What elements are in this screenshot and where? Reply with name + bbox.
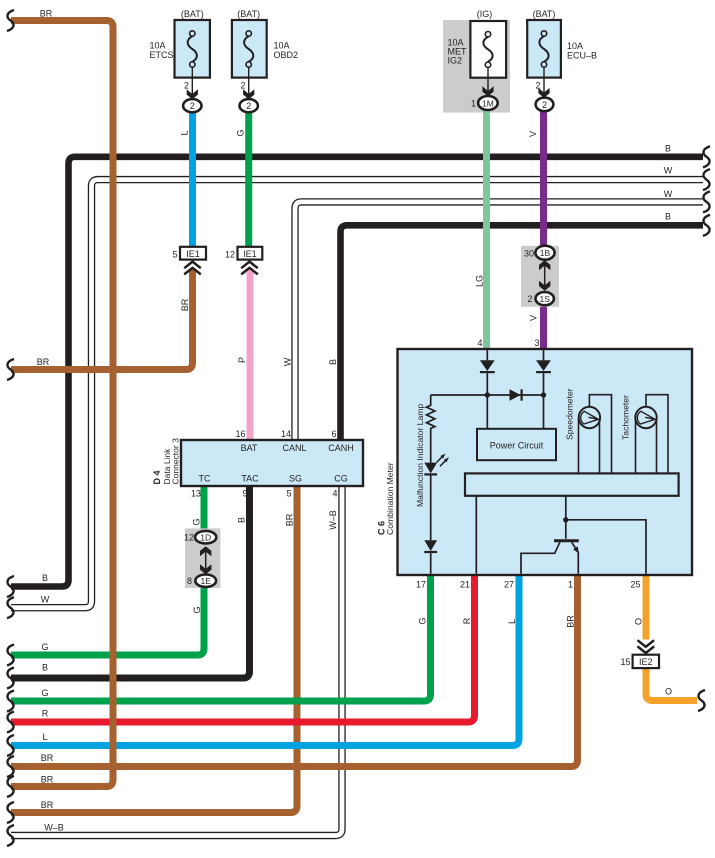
wire L from fuse ETCS to connector IE1 (blue): [189, 111, 196, 248]
svg-text:10A: 10A: [567, 41, 583, 51]
wire to power circuit right: [543, 395, 545, 429]
connector IE2 pin 15 on O wire: [620, 640, 659, 668]
wire G from D4 pin 13 TC through 1D/1E to left edge (green): [11, 486, 204, 655]
svg-text:8: 8: [187, 576, 192, 586]
svg-text:R: R: [462, 617, 472, 624]
svg-text:Combination Meter: Combination Meter: [385, 462, 395, 535]
svg-text:1D: 1D: [200, 533, 211, 543]
tachometer loop wire: [646, 395, 668, 474]
svg-text:16: 16: [235, 429, 245, 439]
LED malfunction indicator lamp: [424, 453, 449, 474]
fuse 10A ETCS: [150, 9, 210, 112]
wire BR from left edge to meter pin 1 (brown): [11, 575, 578, 767]
svg-text:2: 2: [542, 100, 547, 110]
node B right edge bottom: [703, 215, 710, 236]
wire BR from connector IE1 to left edge (brown): [11, 270, 193, 370]
wire B main bus top-right to bottom-left (black): [11, 157, 703, 587]
svg-text:SG: SG: [289, 474, 302, 484]
svg-text:3: 3: [534, 338, 539, 348]
svg-text:5: 5: [172, 249, 177, 259]
svg-text:30: 30: [524, 249, 534, 259]
svg-text:W–B: W–B: [44, 823, 64, 833]
wire LG from connector 1M to meter pin 4 (light green): [483, 110, 490, 350]
junction node right: [541, 392, 546, 397]
svg-text:(BAT): (BAT): [533, 9, 556, 19]
svg-text:W: W: [664, 189, 673, 199]
svg-text:2: 2: [527, 294, 532, 304]
svg-text:G: G: [192, 606, 202, 613]
svg-text:B: B: [665, 144, 671, 154]
fuse 10A OBD2: [232, 9, 298, 112]
svg-text:G: G: [41, 688, 48, 698]
svg-text:CANH: CANH: [328, 443, 354, 453]
connector IE1 pin 12: [225, 247, 262, 275]
svg-text:BR: BR: [41, 775, 54, 785]
svg-text:L: L: [42, 732, 47, 742]
svg-text:TC: TC: [199, 474, 211, 484]
svg-text:L: L: [180, 130, 190, 135]
node B bottom-left 2: [7, 668, 14, 689]
wire to power circuit left: [486, 395, 488, 429]
tachometer gauge: [635, 407, 656, 428]
speedometer loop wire: [589, 395, 611, 474]
svg-text:BR: BR: [41, 800, 54, 810]
svg-text:G: G: [192, 518, 202, 525]
svg-text:1S: 1S: [539, 294, 550, 304]
svg-text:27: 27: [504, 580, 514, 590]
svg-text:1E: 1E: [200, 576, 211, 586]
svg-text:12: 12: [225, 249, 235, 259]
transistor Q1: [521, 541, 579, 574]
node BR bottom-left 1: [7, 756, 14, 777]
node W right edge 1: [703, 169, 710, 190]
fuse 10A MET IG2: [448, 9, 507, 110]
svg-text:W: W: [283, 357, 293, 366]
wire MIL chain: [430, 476, 432, 541]
diode at meter pin 3: [536, 350, 551, 395]
svg-text:CG: CG: [334, 474, 348, 484]
node L bottom-left: [7, 735, 14, 756]
svg-text:1: 1: [568, 580, 573, 590]
node W bottom-left: [7, 597, 14, 618]
wire V from fuse ECU-B to meter pin 3 (violet): [540, 110, 547, 350]
svg-text:1M: 1M: [482, 98, 494, 108]
node O right edge: [698, 690, 705, 711]
gray panel behind fuse MET IG2: [443, 20, 510, 113]
svg-text:G: G: [41, 642, 48, 652]
svg-text:(BAT): (BAT): [237, 9, 260, 19]
wire internal horizontal node: [431, 394, 544, 396]
node G bottom-left 2: [7, 691, 14, 712]
svg-text:G: G: [418, 617, 428, 624]
svg-text:5: 5: [286, 489, 291, 499]
svg-text:IE2: IE2: [639, 657, 653, 667]
fuse 10A ECU-B: [527, 9, 597, 111]
wire R from left edge to meter pin 21 (red): [11, 575, 475, 722]
power circuit box U1: [477, 429, 556, 460]
svg-text:LG: LG: [475, 275, 485, 287]
svg-text:Malfunction Indicator Lamp: Malfunction Indicator Lamp: [415, 404, 425, 507]
svg-text:V: V: [529, 315, 539, 321]
svg-text:4: 4: [332, 489, 337, 499]
wire B from D4 pin 9 TAC to left edge (black): [11, 486, 250, 678]
svg-text:IE1: IE1: [186, 249, 200, 259]
svg-text:Speedometer: Speedometer: [565, 388, 575, 440]
svg-text:BR: BR: [566, 615, 576, 628]
svg-text:B: B: [42, 573, 48, 583]
svg-text:21: 21: [460, 580, 470, 590]
bus bar: [465, 473, 679, 495]
svg-text:CANL: CANL: [282, 443, 306, 453]
svg-text:4: 4: [477, 338, 482, 348]
svg-text:V: V: [528, 131, 538, 137]
svg-text:(BAT): (BAT): [181, 9, 204, 19]
wire bus to pin 21: [475, 496, 477, 574]
connector pair 1B/1S on V wire: [521, 246, 559, 307]
svg-text:Power Circuit: Power Circuit: [490, 441, 544, 451]
diode in MIL chain: [424, 540, 437, 574]
svg-text:D 4: D 4: [152, 470, 162, 484]
svg-text:Connector 3: Connector 3: [171, 438, 181, 485]
node B right edge top: [703, 146, 710, 167]
wire W bus right edge to bottom-left (white, outlined): [11, 180, 703, 608]
connector pair 1D/1E on TC wire: [184, 528, 220, 588]
svg-text:OBD2: OBD2: [274, 50, 299, 60]
node BR top-left: [7, 10, 14, 31]
wire P from connector IE1 to D4 pin 16 (pink): [247, 270, 254, 441]
svg-text:BAT: BAT: [241, 443, 258, 453]
wire BR from D4 pin 5 SG to left edge (brown): [11, 486, 297, 813]
svg-text:ETCS: ETCS: [150, 50, 174, 60]
svg-text:P: P: [237, 357, 247, 363]
wire O from meter pin 25 through IE2 to right edge (orange): [643, 575, 650, 640]
node BR mid-left: [7, 359, 14, 380]
svg-text:2: 2: [246, 101, 251, 111]
svg-text:BR: BR: [285, 513, 295, 526]
svg-text:G: G: [236, 129, 246, 136]
svg-text:O: O: [634, 618, 644, 625]
svg-text:W: W: [41, 595, 50, 605]
svg-text:1: 1: [471, 99, 476, 109]
svg-text:W: W: [664, 166, 673, 176]
junction node collector: [563, 517, 568, 522]
node BR bottom-left 3: [7, 802, 14, 823]
node B bottom-left: [7, 576, 14, 597]
svg-text:6: 6: [331, 429, 336, 439]
svg-text:17: 17: [416, 580, 426, 590]
wire G from fuse OBD2 to connector IE1 (green): [245, 111, 252, 248]
svg-text:2: 2: [190, 101, 195, 111]
svg-text:B: B: [237, 517, 247, 523]
svg-text:10A: 10A: [274, 41, 290, 51]
connector D4 Data Link Connector 3: [181, 440, 363, 486]
svg-text:2: 2: [535, 81, 540, 91]
speedometer gauge legs: [578, 418, 580, 473]
wire W CANL from right edge to D4 pin 14 (white, outlined): [295, 202, 703, 440]
svg-text:2: 2: [240, 81, 245, 91]
svg-text:(IG): (IG): [477, 9, 493, 19]
svg-text:1B: 1B: [540, 248, 551, 258]
svg-text:15: 15: [620, 657, 630, 667]
svg-text:25: 25: [630, 580, 640, 590]
svg-text:R: R: [42, 709, 49, 719]
combination meter C6 box: [398, 349, 693, 575]
svg-text:O: O: [665, 687, 672, 697]
node BR bottom-left 2: [7, 776, 14, 797]
svg-text:10A: 10A: [150, 41, 166, 51]
svg-text:IG2: IG2: [448, 56, 463, 66]
svg-text:B: B: [42, 663, 48, 673]
svg-text:BR: BR: [37, 357, 50, 367]
node W right edge 2: [703, 191, 710, 212]
junction node left: [485, 392, 490, 397]
svg-text:13: 13: [191, 489, 201, 499]
svg-text:L: L: [507, 619, 517, 624]
connector IE1 pin 5: [172, 247, 206, 275]
svg-text:W–B: W–B: [328, 510, 338, 530]
series diode: [510, 389, 522, 400]
wire B CANH from right edge to D4 pin 6 (black): [341, 225, 704, 440]
svg-text:14: 14: [281, 429, 291, 439]
svg-text:IE1: IE1: [243, 249, 257, 259]
svg-text:BR: BR: [41, 753, 54, 763]
svg-text:BR: BR: [180, 298, 190, 311]
node G bottom-left 1: [7, 645, 14, 666]
speedometer gauge: [579, 407, 600, 428]
wire bus to transistor collector: [565, 496, 567, 539]
svg-text:B: B: [665, 212, 671, 222]
wire L from left edge to meter pin 27 (blue): [11, 575, 519, 746]
node R bottom-left: [7, 712, 14, 733]
resistor R1 (MIL): [427, 395, 435, 463]
diode at meter pin 4: [480, 350, 495, 395]
svg-text:TAC: TAC: [241, 474, 259, 484]
svg-text:12: 12: [184, 533, 194, 543]
tachometer gauge legs: [635, 418, 637, 473]
svg-text:9: 9: [242, 489, 247, 499]
wire W-B from D4 pin 4 CG to left edge (white-black, outlined): [11, 486, 342, 836]
svg-text:ECU–B: ECU–B: [567, 51, 597, 61]
svg-text:BR: BR: [40, 9, 53, 19]
svg-text:2: 2: [184, 81, 189, 91]
wire junction to pin 25: [566, 520, 646, 574]
svg-text:B: B: [328, 359, 338, 365]
svg-text:Tachometer: Tachometer: [621, 395, 631, 440]
wire BR from top-left edge down to bottom-left edge (brown): [11, 21, 113, 787]
wire G from left edge to meter pin 17 (green): [11, 575, 431, 701]
node W-B bottom-left: [7, 825, 14, 846]
